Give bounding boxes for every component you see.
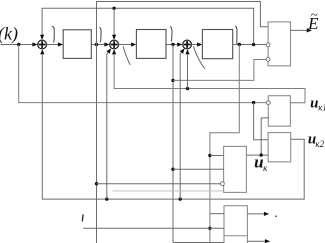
arc mark after S3: [194, 46, 205, 69]
wire: W2 pick-off vertical down: [172, 45, 174, 243]
summing junction S1: [38, 40, 47, 49]
wire: feedback line to S1 and S2 tops: [42, 8, 254, 43]
node: W2 output pick-off: [171, 43, 174, 46]
node: input pick-off junction: [17, 43, 20, 46]
node: branch to block B pin1: [252, 101, 255, 104]
wire: riser into S3 bottom: [187, 55, 189, 89]
wire: S3 output to block W3: [192, 44, 198, 46]
node: W3 output pick-off 1: [238, 43, 241, 46]
wire: S1 output to block W1: [47, 44, 59, 46]
wire: W1 pick-off to block E pin1: [97, 2, 269, 45]
block B (u_k2 former): [268, 133, 291, 162]
svg-text:u: u: [310, 96, 318, 112]
svg-text:к2: к2: [315, 139, 324, 149]
node: u_k branch to block A: [260, 153, 263, 156]
wire: diagonal riser into S3: [180, 52, 181, 199]
block C: [224, 146, 247, 192]
arrowhead into summer S1: [32, 42, 37, 46]
svg-text:к: к: [263, 163, 268, 173]
wire: block E output: [291, 29, 307, 31]
arrowhead into S1 top: [40, 35, 44, 40]
pin circle: block C input 3: [221, 182, 225, 186]
wire: W3 pick-off down-left-down: [210, 45, 239, 243]
arrowhead into S2 top: [112, 35, 116, 40]
wire: branch into block D pin1: [210, 213, 224, 215]
wire: input pick-off down and right to block A: [19, 45, 267, 103]
wire: block A output loop to S2/S3 bottoms: [114, 55, 305, 103]
block E (extrapolator): [268, 22, 290, 66]
arrowhead into block W1: [58, 42, 63, 46]
pin circle: block E input 2: [266, 43, 270, 47]
sampler mark after W3: [235, 26, 237, 44]
arrowhead into S3 bottom: [185, 49, 189, 54]
wire: block A pin2 from u_k node: [261, 118, 268, 155]
wire: diagonal riser into S2: [107, 52, 108, 199]
wire: W1 pick-off long vertical down: [96, 45, 98, 243]
summing junction S2: [110, 40, 119, 49]
node: branch to block C pin2: [171, 168, 174, 171]
sampler mark before S2: [100, 27, 102, 42]
wire: block D2 output: [247, 240, 265, 242]
node: branch into block D pin2: [208, 227, 211, 230]
arrowhead into block W3: [197, 42, 202, 46]
node: branch into block C pin1: [208, 154, 211, 157]
pin circle: block E input 3: [266, 58, 270, 62]
node: branch to E pin3 wire: [171, 79, 174, 82]
arrowhead into S1 bottom: [40, 49, 44, 54]
node: branch to block C pin3: [95, 182, 98, 185]
pin circle: block A input 1: [266, 101, 270, 105]
node: u_k2 wire branch to S2 diagonal: [105, 197, 108, 200]
block W1: [63, 30, 91, 59]
wire: S2 output to block W2: [119, 44, 132, 46]
arrowhead diagonal into S2: [106, 48, 111, 53]
wire: feedback riser into S2 top: [113, 8, 115, 35]
arrowhead on D2 output: [265, 239, 270, 243]
wire: block C output (u_k): [245, 154, 247, 156]
svg-text:к1: к1: [318, 103, 325, 113]
wire: branch to block E pin3: [173, 60, 266, 81]
speck near D output: [275, 215, 277, 217]
node: W3 output pick-off 2: [252, 43, 255, 46]
arrowhead into summer S3: [177, 42, 182, 46]
stub label near external input: [81, 214, 84, 221]
wire: into block C pin3: [97, 183, 221, 185]
arrowhead into block W2: [131, 42, 136, 46]
sampler mark before S3: [170, 26, 172, 41]
node: feedback branch to S2 top: [112, 7, 115, 10]
wire: W2 output to summer S3: [166, 44, 177, 46]
wire: u_k node into block B pin2: [246, 154, 268, 156]
wire: external input to block D pin2: [83, 227, 224, 229]
wire: W1 output to summer S2: [91, 44, 104, 46]
svg-text:(k): (k): [0, 23, 18, 44]
node: u_k2 wire branch to S3 diagonal: [179, 197, 182, 200]
arrowhead into S2 bottom: [112, 49, 116, 54]
faint line into block C: [113, 190, 224, 192]
wire: block B output loop to S1/S2/S3 bottoms: [42, 55, 304, 199]
svg-text:~: ~: [311, 7, 318, 22]
arrowhead on D output 1: [264, 212, 269, 216]
arrowhead into summer S2: [104, 42, 109, 46]
wire: W3 output to block E: [233, 44, 267, 46]
arrowhead diagonal into S3: [180, 48, 185, 53]
block A (u_k1 former): [268, 96, 290, 127]
wire: into block C pin1: [210, 155, 224, 157]
block W2: [136, 30, 166, 59]
divider in block D: [224, 235, 247, 237]
sampler mark after S1: [52, 26, 55, 42]
node: u_k1 wire branch to S3: [186, 87, 189, 90]
node: W1 output pick-off: [95, 43, 98, 46]
wire: block D output 1: [247, 213, 264, 215]
arrowhead on E output: [307, 28, 312, 32]
wire: branch down to block B pin1: [254, 103, 269, 140]
wire: into block C pin2: [173, 168, 224, 170]
block W3: [202, 30, 232, 59]
block D (output former): [224, 206, 247, 243]
summing junction S3: [183, 40, 192, 49]
wire: block D2 input from W2 pick-off: [173, 242, 224, 243]
arc mark after S2: [123, 46, 130, 65]
wire: input line into summer S1: [1, 44, 33, 46]
